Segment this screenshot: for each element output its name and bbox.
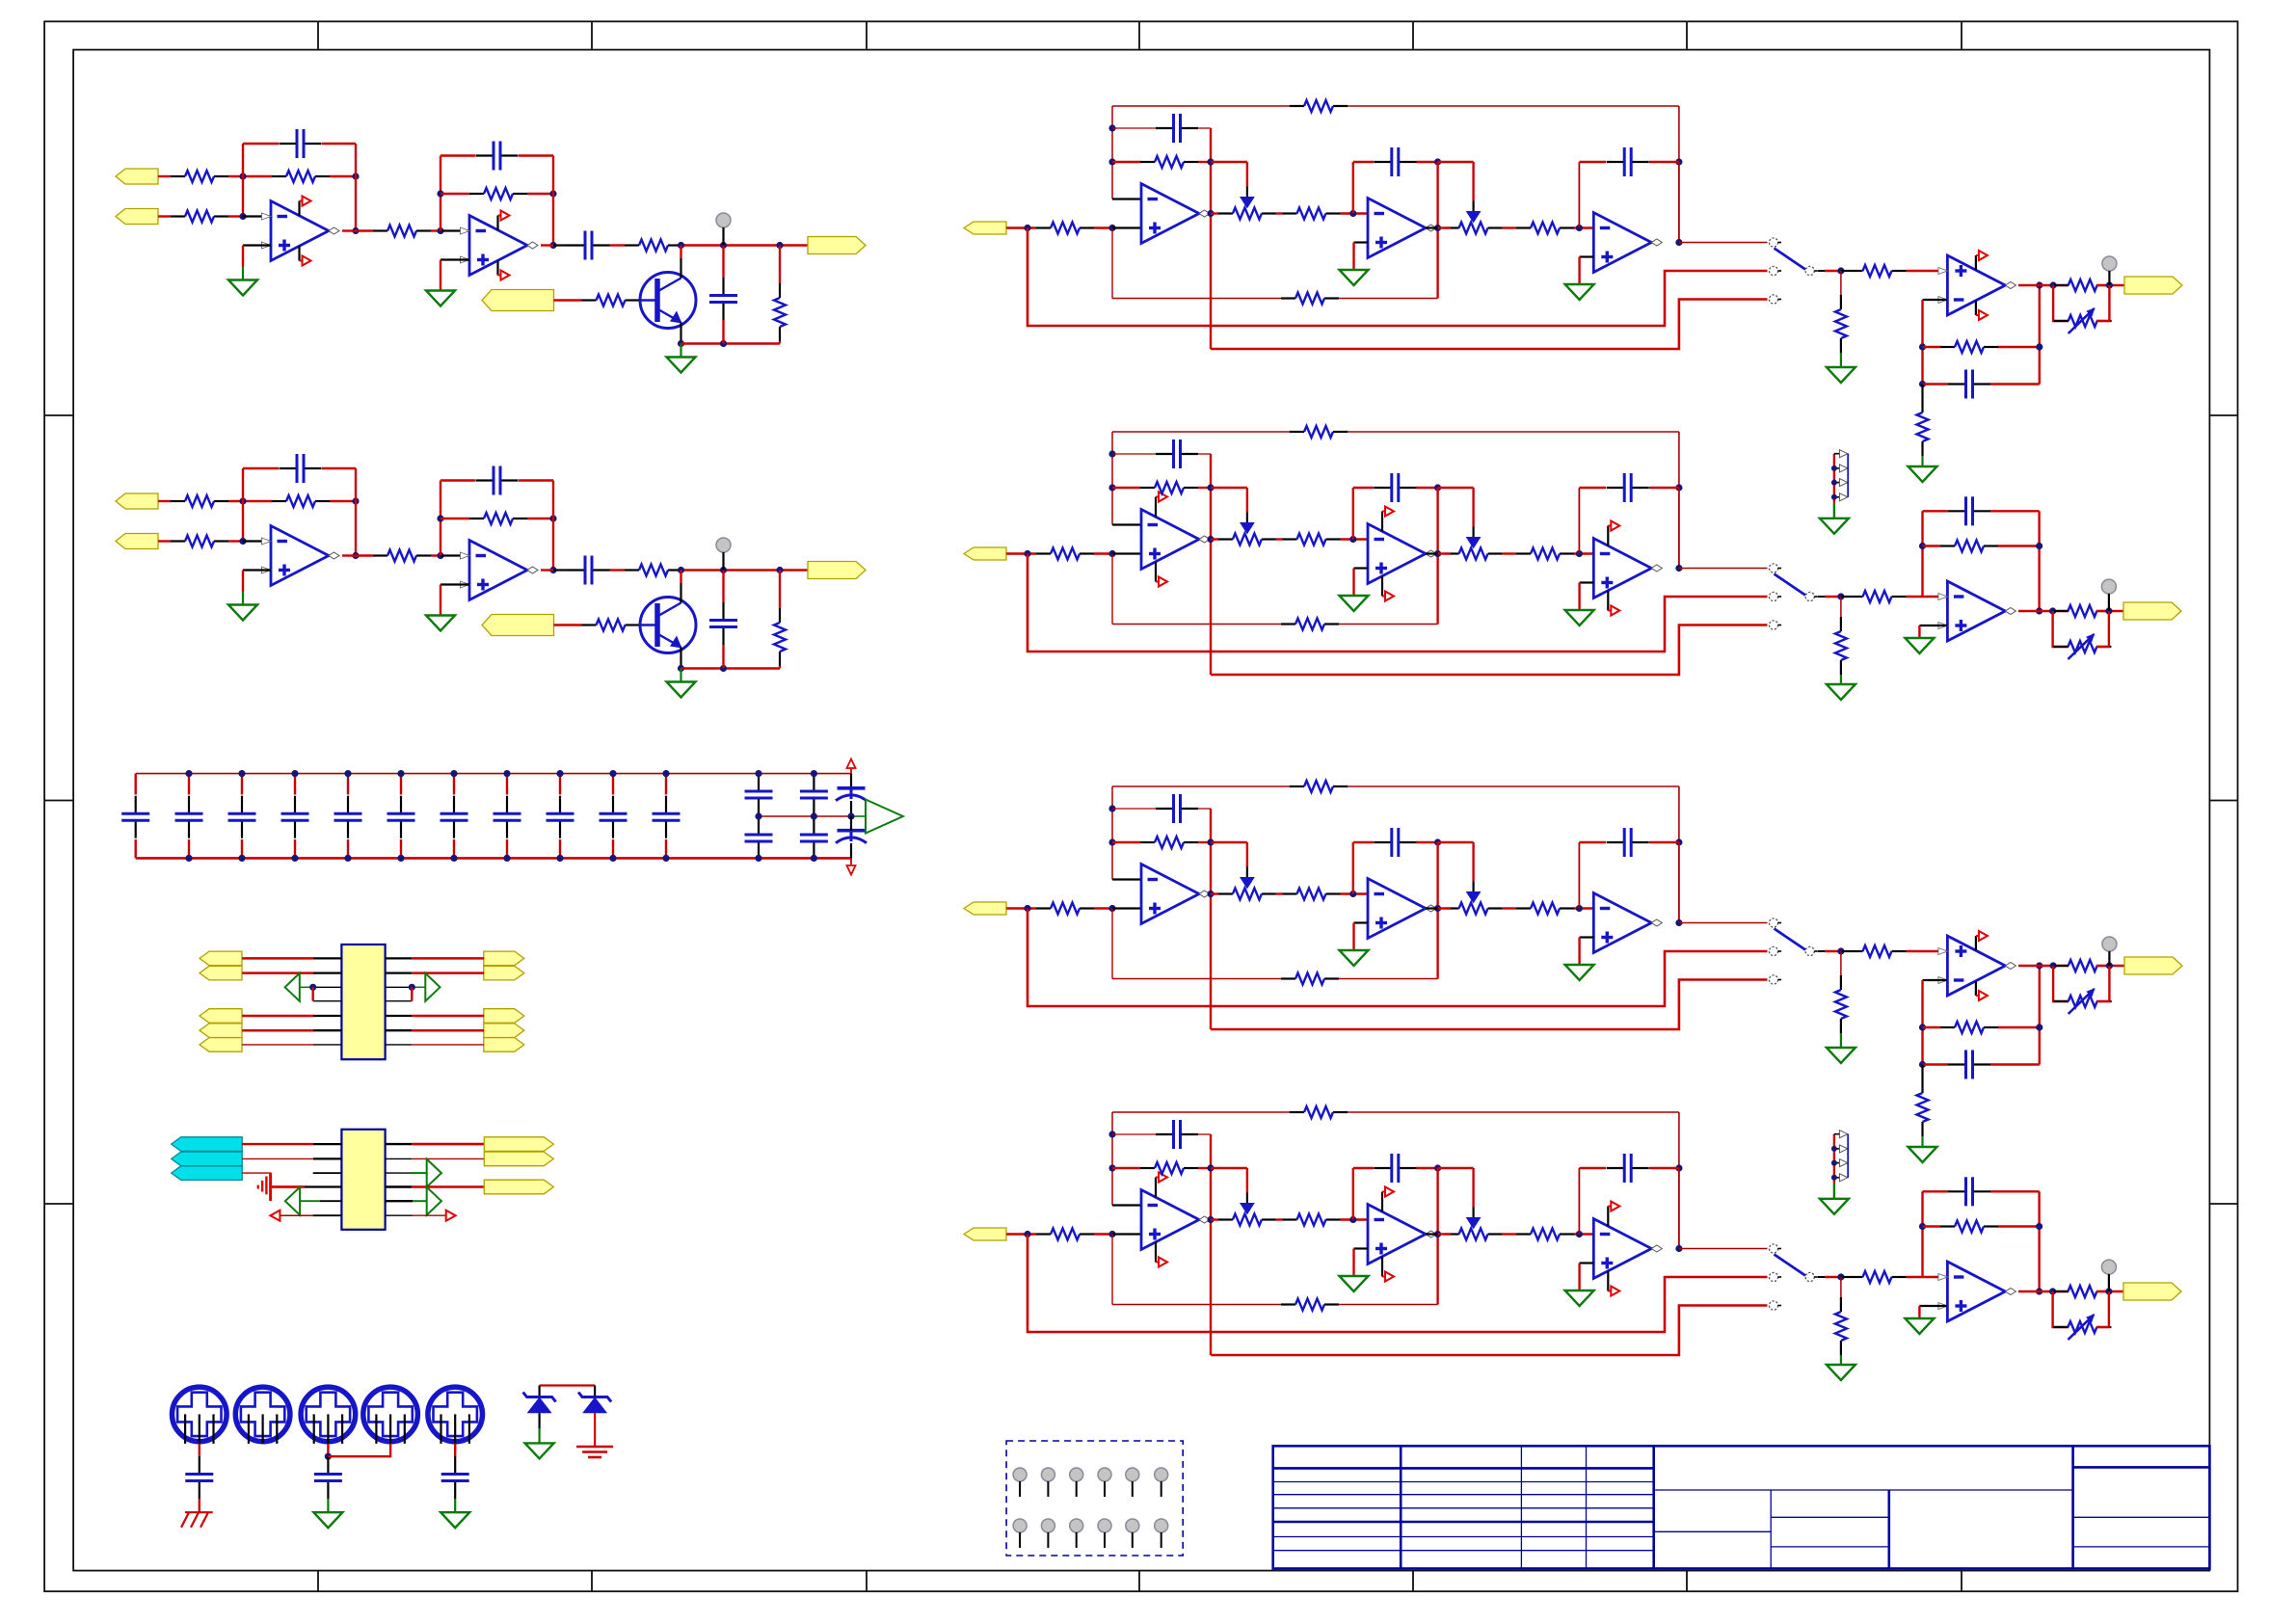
wire to op1 inv <box>1112 878 1141 880</box>
wire to op1 noninv <box>1112 1233 1141 1235</box>
wire out3 to switch <box>1679 1248 1768 1250</box>
wire fb cap row <box>1112 453 1156 455</box>
connector block U-conn1 <box>341 945 385 1059</box>
resistor R-in <box>1036 226 1051 228</box>
resistor R-out <box>2054 284 2069 286</box>
input port IN+ <box>116 169 158 184</box>
switch lever <box>1775 249 1806 270</box>
ground <box>426 616 455 631</box>
wire <box>851 815 866 817</box>
wire fb right leg <box>2039 285 2041 385</box>
node out1 <box>1207 1216 1214 1223</box>
resistor R23 <box>1516 226 1531 228</box>
wire <box>342 554 356 556</box>
node Jin <box>1024 905 1030 912</box>
test point dashed box <box>1006 1441 1183 1556</box>
wire fb cap row <box>1923 1190 1949 1192</box>
switch pole contacts <box>1769 918 1777 927</box>
wire to op1 inv <box>1112 523 1141 525</box>
wire out3 to switch <box>1679 922 1768 924</box>
node out1 <box>352 552 359 559</box>
wire to op1 noninv <box>1112 907 1141 909</box>
wire <box>1503 552 1516 554</box>
wire <box>1276 212 1283 214</box>
wire <box>610 244 626 246</box>
resistor R-base <box>582 624 597 625</box>
wire fb res row <box>1923 1225 1941 1227</box>
wire <box>355 501 357 556</box>
title block <box>1273 1446 2210 1568</box>
wire fb cap row <box>1112 808 1156 810</box>
wire <box>431 229 441 231</box>
wire <box>158 540 171 542</box>
feedback resistor R-fb <box>272 175 286 177</box>
wire common to junction <box>1818 596 1825 598</box>
port right row5 <box>484 1009 524 1024</box>
wire <box>779 571 781 609</box>
node <box>720 665 727 672</box>
wire emitter <box>680 323 681 344</box>
wire r-row3 <box>386 1172 413 1174</box>
potentiometer P2 <box>1445 907 1459 909</box>
transistor Q1 <box>640 598 696 653</box>
ground <box>1905 1318 1934 1334</box>
switch lever <box>1775 574 1806 596</box>
potentiometer P2 <box>1445 1233 1459 1235</box>
node <box>409 984 415 991</box>
op-amp U-C <box>1593 1219 1651 1279</box>
wire bottom fb row <box>1111 1235 1113 1305</box>
wire <box>1438 226 1451 228</box>
test pin <box>1041 1519 1055 1532</box>
op-amp U-A <box>1141 184 1199 244</box>
node cap row <box>1108 124 1115 131</box>
wire <box>1006 226 1036 228</box>
node <box>1675 484 1682 491</box>
wire cap3 row <box>1579 487 1606 489</box>
4-pin header connector <box>1833 454 1835 503</box>
wire op3 fb left leg <box>1578 488 1580 554</box>
capacitor bank rails <box>136 773 851 775</box>
shunt resistor to gnd <box>1840 1277 1842 1297</box>
wire <box>441 518 469 519</box>
node Jm2 <box>1349 891 1356 897</box>
node <box>1675 1164 1682 1171</box>
bypass capacitor C4 <box>294 774 296 795</box>
earth ground rotated <box>269 1173 272 1201</box>
wire <box>300 986 313 988</box>
resistor R-top <box>1290 785 1304 787</box>
wire <box>431 554 441 556</box>
node shunt <box>776 567 783 573</box>
op-amp U-B <box>1368 524 1426 584</box>
potentiometer P1 <box>1218 1218 1233 1220</box>
wire op3 noninv gnd <box>1580 1262 1594 1264</box>
resistor R-buf-in <box>1849 596 1863 598</box>
node J3 <box>239 213 246 220</box>
potentiometer P2 <box>1445 226 1459 228</box>
wire <box>1094 1233 1112 1235</box>
resistor R-in <box>1036 1233 1051 1235</box>
mounting hole connector <box>173 1387 227 1442</box>
capacitor C-fb2 <box>476 154 494 156</box>
wire <box>1574 907 1593 909</box>
wire fb res row <box>1923 346 1941 348</box>
shunt resistor to gnd <box>1840 597 1842 617</box>
wire <box>386 1029 413 1031</box>
resistor R23 <box>1516 907 1531 909</box>
wire output <box>2018 284 2040 286</box>
wire <box>638 299 641 301</box>
node <box>309 984 316 991</box>
resistor R-top <box>1290 1111 1304 1113</box>
wire r-row5 <box>386 1200 413 1202</box>
rail2 from out1 <box>1211 1306 1768 1356</box>
wire stage2 fb right leg <box>552 156 554 246</box>
wire <box>1211 538 1218 540</box>
node J1 <box>239 497 246 504</box>
ground <box>441 1512 469 1528</box>
wire noninverting input <box>243 244 271 246</box>
node emitter <box>678 665 684 672</box>
wire to op1 noninv <box>1112 226 1141 228</box>
port right row1 <box>484 1137 553 1152</box>
node out2 <box>549 567 556 573</box>
ground <box>1820 1199 1849 1214</box>
wire <box>1840 1033 1842 1048</box>
wire <box>1503 1233 1516 1235</box>
cyan port row3 <box>172 1166 243 1181</box>
resistor R-top <box>1290 105 1304 107</box>
capacitor C3 <box>1607 841 1624 843</box>
node res row <box>1108 484 1115 491</box>
wire <box>2096 965 2124 967</box>
node <box>2050 281 2057 288</box>
resistor R-buf-in <box>1849 950 1863 952</box>
node <box>1919 543 1926 549</box>
capacitor C1 <box>1156 127 1173 129</box>
node <box>2106 281 2113 288</box>
wire <box>610 569 626 571</box>
wire <box>330 175 356 177</box>
resistor R-fb <box>1940 545 1955 546</box>
wire fb res row <box>1112 161 1140 163</box>
stacked capacitor pair at x=844.4 <box>813 774 814 777</box>
wire noninverting input <box>243 569 271 571</box>
ground <box>1565 1290 1594 1306</box>
green output arrow <box>866 800 903 834</box>
potentiometer P1 <box>1218 892 1233 894</box>
node <box>2049 1288 2056 1294</box>
node <box>2049 607 2056 614</box>
hole3 ground chain <box>327 1444 329 1456</box>
node Jm3 <box>1576 225 1583 231</box>
node out1 <box>1207 891 1214 897</box>
wire cap2 row <box>1353 841 1374 843</box>
wire r-row6 <box>386 1214 413 1216</box>
wire <box>1341 538 1369 540</box>
wire <box>682 244 808 246</box>
node Jplus <box>1108 550 1115 557</box>
wire emitter <box>680 648 681 669</box>
wire <box>554 624 582 625</box>
wire gnd <box>1833 503 1835 519</box>
wire stub row4 <box>313 1000 342 1002</box>
node Jm3 <box>1576 1231 1583 1237</box>
wire output <box>2018 610 2040 612</box>
green arrow r-row3 <box>427 1159 441 1187</box>
node Jsw <box>1837 947 1844 954</box>
ground <box>313 1512 342 1528</box>
node <box>2105 607 2112 614</box>
resistor R-out <box>2053 610 2068 612</box>
wire below-cap resistor <box>1921 385 1923 399</box>
wire <box>1426 1233 1438 1235</box>
wire <box>2096 284 2124 286</box>
wire <box>1426 907 1438 909</box>
node Jin <box>1024 225 1030 231</box>
port right row7 <box>484 1038 524 1052</box>
polarized capacitor pair <box>850 774 852 788</box>
input port <box>964 547 1006 560</box>
switch common contact <box>1805 592 1814 600</box>
port right row4 <box>484 1180 553 1194</box>
wire global fb top <box>1112 105 1290 107</box>
wire minus node vertical <box>1111 106 1113 200</box>
wire <box>1678 1112 1680 1168</box>
wire to op1 inv <box>1112 1204 1141 1206</box>
ground <box>525 1443 554 1458</box>
op-amp U-C <box>1593 539 1651 599</box>
node <box>1675 838 1682 845</box>
resistor R-gnd <box>1921 398 1923 412</box>
op-amp U1A <box>271 526 329 586</box>
wire to op1 inv <box>1112 198 1141 200</box>
capacitor C-fb <box>1948 383 1965 385</box>
wire <box>242 1015 313 1018</box>
node res row <box>1108 158 1115 165</box>
wire fb res row <box>1112 487 1140 489</box>
wire op3 fb left leg <box>1578 162 1580 228</box>
wire feedback cap right leg <box>355 468 357 501</box>
wire stage2 fb left leg <box>440 156 441 231</box>
wire noninv <box>441 258 469 260</box>
op-amp U-A <box>1141 1190 1199 1250</box>
resistor R-fb <box>1940 346 1955 348</box>
shunt resistor to gnd <box>1840 951 1842 975</box>
wire <box>1907 596 1948 598</box>
input port <box>964 902 1006 915</box>
bypass capacitor C5 <box>347 774 349 795</box>
rail1 from input <box>1028 1235 1768 1333</box>
wire output <box>2018 965 2040 967</box>
test pin <box>1098 1519 1111 1532</box>
wire fb left leg <box>1921 300 1923 385</box>
node out1 <box>1207 210 1214 217</box>
resistor R12 <box>373 554 387 556</box>
resistor R-bot <box>1281 623 1295 625</box>
resistor R-out <box>2054 965 2069 967</box>
chassis ground <box>185 1511 213 1513</box>
wire to inverting input <box>243 215 271 217</box>
wire <box>1006 552 1036 554</box>
node <box>2050 962 2057 969</box>
wire <box>330 500 356 502</box>
node <box>1207 838 1214 845</box>
wire fb right leg <box>1210 809 1212 1029</box>
node Jm3 <box>1576 550 1583 557</box>
wire <box>228 540 243 542</box>
feedback resistor R-fb <box>272 500 286 502</box>
resistor R12 <box>1283 1218 1297 1220</box>
earth ground <box>576 1446 613 1449</box>
wire to op1 noninv <box>1112 552 1141 554</box>
switch pole contacts <box>1769 238 1777 247</box>
wire <box>1438 907 1451 909</box>
wire <box>386 1044 413 1046</box>
wire fb left leg <box>1921 980 1923 1065</box>
node <box>1434 484 1441 491</box>
test point <box>2102 256 2117 271</box>
switch pole contacts <box>1769 1244 1777 1253</box>
ground <box>1340 270 1369 285</box>
port right row2 <box>484 1152 553 1166</box>
test pin <box>1155 1519 1168 1532</box>
wire op3 fb left leg <box>1578 1168 1580 1235</box>
test pin <box>1098 1468 1111 1481</box>
wire fb cap row <box>1112 1133 1156 1135</box>
potentiometer P1 <box>1218 212 1233 214</box>
wire out3 to switch <box>1679 242 1768 244</box>
wire op3 fb right leg <box>1678 488 1680 569</box>
wire fb cap row <box>1923 510 1949 512</box>
wire fb res row <box>1112 841 1140 843</box>
node collector <box>678 242 684 249</box>
port left row6 <box>200 1024 242 1038</box>
ground <box>1340 1276 1369 1291</box>
resistor R12 <box>1283 212 1297 214</box>
wire feedback cap left leg <box>242 144 244 217</box>
wire <box>1211 1218 1218 1220</box>
mounting hole connector <box>235 1387 290 1442</box>
wire fb right leg <box>2038 1191 2040 1291</box>
wire <box>242 971 313 974</box>
test pin <box>1126 1519 1139 1532</box>
wire <box>158 175 171 177</box>
node shunt <box>776 242 783 249</box>
capacitor C3 <box>1607 1167 1624 1169</box>
resistor R-buf-in <box>1849 270 1863 272</box>
bypass capacitor C6 <box>400 774 402 795</box>
resistor R12 <box>1283 538 1297 540</box>
op-amp U-buf <box>1947 1262 2005 1321</box>
node Jsw <box>1837 1273 1844 1280</box>
node out3 <box>1675 239 1682 246</box>
wire <box>412 986 425 988</box>
hole3-hole4 link <box>328 1444 390 1456</box>
wire to stage2 inverting input <box>441 554 469 556</box>
op-amp U-A <box>1141 510 1199 570</box>
bypass capacitor C7 <box>453 774 455 795</box>
wire <box>355 176 357 231</box>
test point <box>2101 579 2116 594</box>
wire op3 noninv gnd <box>1580 581 1594 583</box>
node out2 <box>1434 550 1441 557</box>
wire stub row3 <box>313 986 342 988</box>
wire op3 noninv gnd <box>1580 936 1594 938</box>
switch lever <box>1775 929 1806 950</box>
wire <box>1907 270 1948 272</box>
wire row3 <box>242 1172 270 1174</box>
node <box>720 340 727 347</box>
transistor Q1 <box>640 273 696 329</box>
node <box>2106 962 2113 969</box>
wire cap2 row <box>1353 1167 1374 1169</box>
resistor R-in-b <box>171 540 185 542</box>
resistor R12 <box>1283 892 1297 894</box>
green arrow gnd left <box>285 973 300 1001</box>
cyan port row2 <box>172 1152 243 1166</box>
wire test point stem <box>722 227 724 246</box>
ground <box>426 291 455 306</box>
wire <box>1574 226 1593 228</box>
ground <box>1827 684 1855 700</box>
ground <box>1565 610 1594 625</box>
test point <box>716 213 731 227</box>
wire out3 to switch <box>1679 568 1768 570</box>
wire collector <box>680 571 681 584</box>
wire tp stem <box>2108 1274 2110 1291</box>
wire fb right leg <box>1210 1134 1212 1355</box>
node Jplus <box>1108 905 1115 912</box>
wire global fb top <box>1112 785 1290 787</box>
wire <box>722 571 724 603</box>
bypass capacitor C10 <box>612 774 614 795</box>
wire inv input <box>1923 979 1948 981</box>
mute port <box>482 290 554 311</box>
wire tp stem <box>2108 951 2110 966</box>
shunt capacitor C-sh <box>722 602 724 620</box>
op-amp U-A <box>1141 865 1199 924</box>
cyan port row1 <box>172 1137 243 1152</box>
wire feedback cap left leg <box>242 468 244 542</box>
hole1 ground chain <box>199 1444 200 1456</box>
wire <box>1438 552 1451 554</box>
wire fb right leg <box>2039 966 2041 1065</box>
output port <box>2123 602 2181 620</box>
wire fb right leg <box>2038 511 2040 611</box>
output port <box>2124 957 2182 974</box>
wire <box>722 246 724 279</box>
wire fb res row <box>1112 1167 1140 1169</box>
rail2 from out1 <box>1211 625 1768 676</box>
capacitor C-fb <box>280 143 297 145</box>
wire <box>2096 1290 2123 1292</box>
wire <box>1907 1276 1948 1278</box>
wire op2 noninv gnd <box>1354 921 1369 923</box>
wire global fb top <box>1112 1111 1290 1113</box>
op-amp U-C <box>1593 213 1651 273</box>
wire <box>386 971 413 973</box>
resistor R12 <box>373 229 387 231</box>
capacitor C2 <box>1374 161 1391 163</box>
wire <box>441 193 469 195</box>
wire <box>682 569 808 571</box>
port left row7 <box>200 1038 242 1052</box>
wire <box>242 957 313 960</box>
wire fb cap row <box>1112 127 1156 129</box>
green arrow gnd right <box>425 973 440 1001</box>
